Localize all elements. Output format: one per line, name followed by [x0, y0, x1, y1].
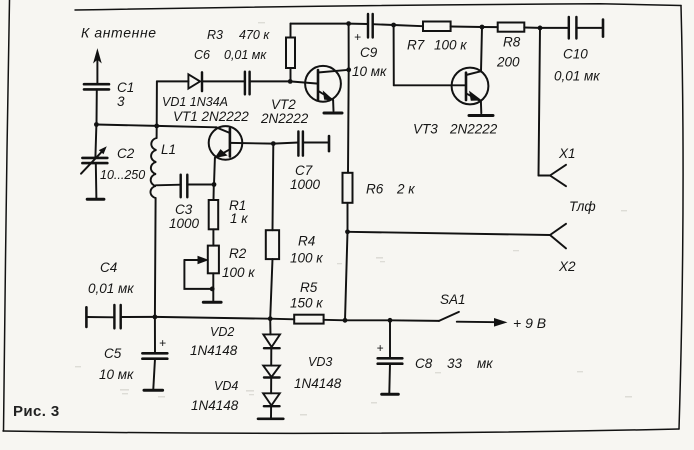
svg-text:1N4148: 1N4148 — [191, 398, 239, 413]
svg-text:С1: С1 — [117, 80, 134, 95]
svg-text:С7: С7 — [295, 163, 313, 178]
svg-text:С2: С2 — [117, 146, 135, 161]
svg-text:VD4: VD4 — [214, 379, 238, 393]
svg-text:мк: мк — [477, 356, 493, 371]
svg-text:10 мк: 10 мк — [352, 64, 387, 79]
svg-text:150 к: 150 к — [290, 296, 323, 311]
svg-text:R5: R5 — [300, 280, 318, 295]
svg-text:К антенне: К антенне — [81, 25, 157, 41]
svg-text:1000: 1000 — [290, 177, 321, 192]
svg-text:С5: С5 — [104, 346, 122, 361]
svg-text:+: + — [377, 341, 384, 355]
svg-text:R6: R6 — [366, 182, 384, 197]
svg-text:VT1 2N2222: VT1 2N2222 — [173, 109, 249, 124]
svg-text:+ 9 В: + 9 В — [513, 315, 546, 331]
svg-text:100 к: 100 к — [434, 38, 467, 53]
svg-text:470 к: 470 к — [239, 28, 270, 42]
svg-text:VD3: VD3 — [308, 355, 332, 369]
svg-text:X1: X1 — [558, 146, 576, 161]
svg-text:С3: С3 — [175, 202, 193, 217]
svg-text:R3: R3 — [207, 28, 223, 42]
svg-text:100 к: 100 к — [222, 265, 255, 280]
svg-text:С6: С6 — [194, 48, 210, 62]
svg-text:С9: С9 — [360, 45, 378, 60]
svg-text:Тлф: Тлф — [569, 199, 596, 214]
svg-text:SA1: SA1 — [440, 292, 466, 307]
svg-text:1N4148: 1N4148 — [190, 343, 238, 358]
svg-text:+: + — [159, 336, 166, 350]
svg-text:R8: R8 — [503, 35, 521, 50]
svg-text:1000: 1000 — [169, 216, 200, 231]
svg-text:33: 33 — [447, 356, 463, 371]
svg-text:R2: R2 — [229, 246, 247, 261]
svg-text:0,01 мк: 0,01 мк — [554, 69, 600, 84]
svg-text:VD2: VD2 — [210, 325, 234, 339]
svg-text:С10: С10 — [563, 47, 588, 62]
svg-text:0,01 мк: 0,01 мк — [88, 281, 134, 296]
svg-text:1N4148: 1N4148 — [294, 376, 342, 391]
svg-text:100 к: 100 к — [290, 251, 323, 266]
svg-text:VD1 1N34A: VD1 1N34A — [162, 95, 228, 109]
svg-text:VT2: VT2 — [271, 97, 296, 112]
svg-text:X2: X2 — [558, 259, 576, 274]
svg-text:+: + — [354, 30, 361, 44]
svg-text:R7: R7 — [407, 38, 425, 53]
svg-text:2N2222: 2N2222 — [449, 122, 498, 137]
svg-text:10...250: 10...250 — [100, 168, 145, 182]
svg-text:Рис. 3: Рис. 3 — [13, 403, 60, 420]
svg-text:200: 200 — [496, 55, 520, 70]
svg-text:R4: R4 — [298, 234, 315, 249]
svg-text:10 мк: 10 мк — [99, 367, 134, 382]
svg-text:2N2222: 2N2222 — [260, 111, 309, 126]
svg-text:С8: С8 — [415, 356, 433, 371]
svg-text:VT3: VT3 — [413, 122, 438, 137]
svg-text:2 к: 2 к — [396, 182, 415, 197]
svg-text:1 к: 1 к — [230, 211, 248, 226]
svg-text:3: 3 — [117, 94, 125, 109]
svg-text:L1: L1 — [161, 142, 176, 157]
svg-text:0,01 мк: 0,01 мк — [224, 48, 267, 62]
svg-text:С4: С4 — [100, 260, 117, 275]
